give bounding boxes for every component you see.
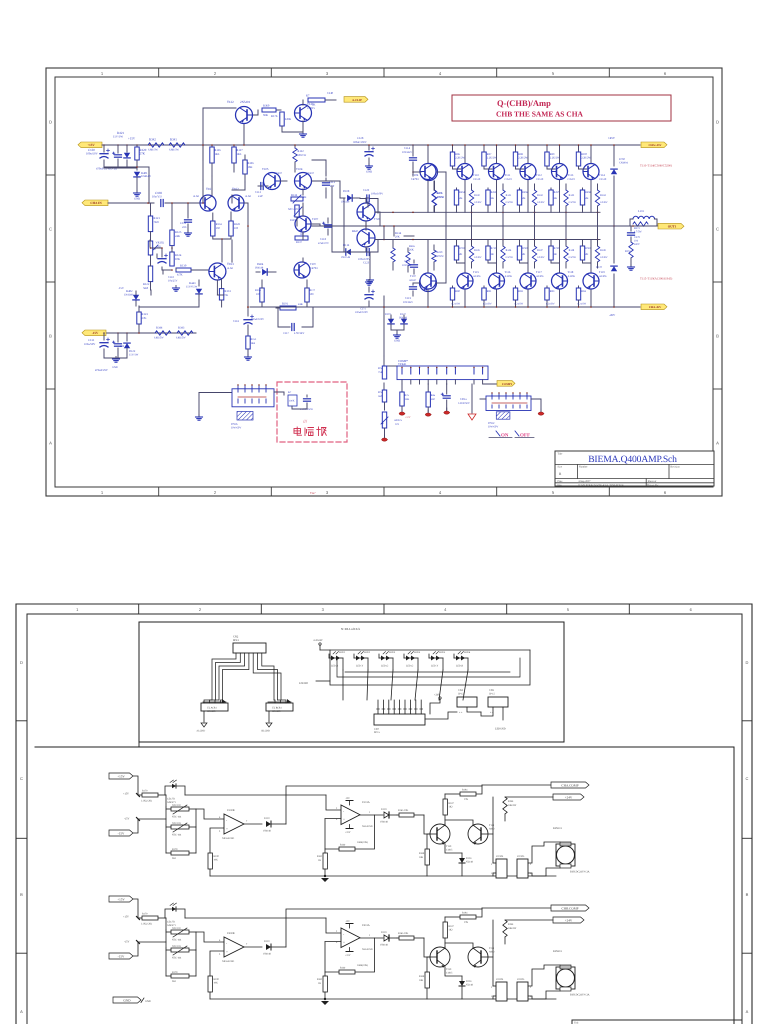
resistor R147 0.5/5W zigzag (row2) — [532, 240, 545, 269]
opto-coupler block COMP VFK41 — [397, 359, 488, 380]
svg-text:T112: T112 — [536, 173, 542, 177]
svg-text:-15V: -15V — [124, 818, 129, 821]
svg-text:1K: 1K — [318, 982, 321, 985]
resistor R145 0.5/5W zigzag (row2) — [469, 240, 482, 269]
svg-text:C3519: C3519 — [536, 178, 544, 181]
resistor R143 0.5/5W zigzag (row1) — [564, 184, 577, 212]
svg-text:ALGND: ALGND — [196, 730, 205, 733]
wire -15V parts — [103, 332, 140, 342]
svg-text:4: 4 — [444, 607, 447, 612]
svg-text:R83: R83 — [550, 290, 555, 293]
svg-text:D: D — [20, 660, 23, 665]
svg-text:C118: C118 — [320, 237, 327, 241]
svg-text:DW6: DW6 — [231, 422, 238, 426]
transistor T107 — [295, 216, 319, 232]
svg-text:27K: 27K — [464, 921, 468, 924]
ground op-amp (CHB) — [321, 998, 329, 1005]
diode D100 CN4004 — [611, 158, 629, 174]
svg-text:R191: R191 — [282, 302, 289, 306]
svg-text:N5542/SD: N5542/SD — [362, 825, 373, 828]
svg-text:0.5/5W: 0.5/5W — [600, 201, 608, 204]
svg-text:A1637: A1637 — [306, 171, 314, 175]
resistor R2a 560 — [378, 390, 387, 410]
svg-text:T231: T231 — [489, 947, 495, 950]
svg-text:6.8K/5W: 6.8K/5W — [176, 337, 186, 340]
capacitor C121 100uF/100V — [355, 287, 375, 314]
svg-text:0.5/5W: 0.5/5W — [537, 201, 545, 204]
svg-text:R255: R255 — [491, 191, 497, 194]
resistor R142 0.5/5W zigzag (row1) — [532, 184, 545, 212]
svg-text:CN104: CN104 — [496, 855, 504, 858]
svg-text:C120: C120 — [363, 188, 370, 192]
svg-text:220K: 220K — [285, 117, 291, 121]
ground triangle comp — [468, 384, 476, 420]
LED2 LED.Y — [354, 651, 371, 670]
output transistor T112 C3519 (row1) — [489, 164, 513, 182]
svg-text:A1637: A1637 — [274, 171, 282, 175]
svg-text:Number: Number — [579, 466, 588, 469]
svg-text:5: 5 — [552, 490, 555, 495]
transistor T106 C4793 — [411, 164, 438, 182]
svg-text:-15V: -15V — [92, 331, 99, 335]
connector CN2 — [233, 635, 266, 653]
svg-text:VFK41: VFK41 — [398, 362, 407, 366]
svg-text:+: + — [343, 941, 345, 945]
ground R3a red — [401, 409, 403, 412]
svg-text:26K: 26K — [409, 249, 414, 252]
resistor R141 0.5/5W zigzag (row1) — [501, 184, 514, 212]
note box CHB same as CHA — [452, 95, 671, 121]
svg-text:A1306: A1306 — [536, 275, 544, 278]
svg-text:R136: R136 — [291, 193, 298, 197]
svg-text:103/5KV: 103/5KV — [402, 264, 412, 267]
svg-text:C4793: C4793 — [411, 177, 419, 181]
wire -15V entry (CHA) — [124, 818, 166, 834]
svg-text:T110: T110 — [473, 173, 479, 177]
connector CN power — [232, 384, 274, 407]
resistor R81 0.24/5W (row2 emitter) — [482, 286, 492, 308]
port flag CHA IN — [82, 200, 108, 206]
output transistor T114 C3519 (row1) — [552, 164, 576, 182]
svg-text:100: 100 — [234, 227, 239, 230]
svg-text:GND: GND — [366, 170, 372, 174]
capacitor C130 — [86, 145, 110, 168]
svg-text:GND: GND — [112, 366, 118, 369]
svg-text:10K: 10K — [419, 856, 423, 859]
resistor R265 26K zigzag — [391, 245, 416, 270]
wire reference line (CHA) — [166, 795, 341, 810]
op-amp U101A (CHA) — [325, 797, 383, 834]
diode D108 — [340, 189, 357, 204]
svg-text:K?: K? — [288, 391, 292, 394]
driver transistor T119 B647 — [352, 229, 375, 247]
ground C128 — [368, 164, 370, 167]
ground BLGND — [262, 723, 273, 733]
wire bottom bus (CHA) — [210, 875, 556, 877]
resistor R126 1K3 — [210, 144, 221, 176]
fan board box — [35, 747, 734, 1024]
svg-text:1K2: 1K2 — [449, 806, 454, 809]
svg-text:7: 7 — [246, 943, 248, 946]
svg-text:R176: R176 — [271, 114, 278, 118]
power flag +24V (CHA) — [553, 794, 584, 800]
resistor R148 0.5/5W zigzag (row2) — [564, 240, 577, 269]
connector CN105 (CHA) — [517, 855, 532, 878]
svg-text:4.7/5W: 4.7/5W — [634, 231, 642, 234]
resistor R360 59K — [262, 104, 276, 118]
svg-text:CN4: CN4 — [458, 689, 464, 692]
svg-text:U200B: U200B — [227, 932, 235, 935]
svg-text:R141: R141 — [506, 194, 512, 197]
svg-text:C123: C123 — [363, 261, 370, 265]
power flag +15V (CHB) — [109, 896, 133, 902]
resistor R134 20K label — [393, 231, 402, 248]
LED5 LED.Y — [429, 651, 446, 670]
svg-text:R257: R257 — [554, 191, 560, 194]
svg-text:R341: R341 — [170, 138, 177, 142]
svg-text:R254: R254 — [459, 191, 465, 194]
wire led matrix — [316, 650, 530, 700]
svg-text:104: 104 — [634, 240, 639, 243]
svg-text:CHA.COMP: CHA.COMP — [561, 783, 578, 787]
svg-text:1K3: 1K3 — [215, 152, 220, 156]
svg-text:R140: R140 — [340, 844, 346, 847]
svg-text:T114: T114 — [599, 173, 605, 177]
svg-text:C: C — [20, 776, 23, 781]
wire led top bus — [320, 650, 530, 654]
svg-text:560: 560 — [378, 395, 383, 398]
svg-text:1K2: 1K2 — [449, 929, 454, 932]
svg-text:-45V: -45V — [609, 313, 616, 317]
svg-text:0.24/5W: 0.24/5W — [515, 303, 524, 306]
svg-text:R156: R156 — [255, 289, 262, 292]
svg-text:100u/50V: 100u/50V — [86, 152, 99, 156]
resistor R170 2.2K (CHB) — [141, 913, 166, 926]
wire power entry — [199, 393, 232, 417]
capacitor C116 — [233, 306, 264, 335]
resistor R130 4.7K — [176, 264, 208, 277]
svg-text:15K: 15K — [405, 398, 410, 401]
svg-text:R100: R100 — [214, 978, 220, 981]
svg-text:A-CLIP: A-CLIP — [352, 98, 362, 102]
preset VR102 — [148, 241, 164, 256]
svg-text:3: 3 — [326, 490, 329, 495]
resistor R165 10K (CHB) — [397, 932, 424, 940]
ground ALGND — [196, 723, 207, 733]
svg-text:R108: R108 — [419, 852, 425, 855]
resistor R3a 15K — [400, 384, 410, 411]
svg-text:5: 5 — [219, 830, 221, 833]
svg-text:470/W: 470/W — [437, 255, 445, 258]
diode D107 — [399, 313, 408, 330]
svg-text:C3?9: C3?9 — [634, 236, 640, 239]
svg-text:LED3: LED3 — [389, 651, 396, 654]
svg-text:2.2P: 2.2P — [258, 195, 263, 198]
svg-text:1N4148: 1N4148 — [341, 201, 350, 204]
resistor R131 7K — [219, 289, 231, 307]
svg-text:5K1: 5K1 — [172, 857, 177, 860]
wire DW2 to ground — [480, 399, 541, 411]
resistor R121 7K8 — [148, 203, 160, 232]
svg-text:R144: R144 — [600, 194, 606, 197]
connector CN7 — [374, 700, 425, 734]
svg-text:B: B — [716, 334, 719, 339]
output transistor T110 C3519 (row1) — [420, 164, 436, 180]
resistor R107 1K2 (CHB) — [443, 917, 454, 947]
svg-text:BLGND: BLGND — [262, 730, 271, 733]
svg-text:OUT1: OUT1 — [668, 225, 677, 229]
svg-text:24K: 24K — [298, 303, 303, 306]
ground op-amp (CHA) — [321, 875, 329, 882]
wire CN2 harness — [204, 653, 286, 703]
svg-text:UL BCR1: UL BCR1 — [272, 707, 282, 710]
wire output columns — [427, 144, 598, 308]
svg-text:T?20: T?20 — [374, 217, 380, 221]
svg-text:100uF/100V: 100uF/100V — [355, 311, 368, 314]
svg-text:NE5532/SD: NE5532/SD — [222, 837, 234, 840]
svg-text:T118: T118 — [568, 270, 574, 274]
svg-text:1: 1 — [369, 811, 371, 814]
output transistor T115 A1306 (row2) — [420, 273, 436, 289]
title block sheet2 corner — [572, 1020, 742, 1024]
svg-text:R190: R190 — [508, 800, 514, 803]
svg-text:10K/5W: 10K/5W — [508, 804, 517, 807]
svg-text:IN4148: IN4148 — [255, 267, 264, 270]
ground R151 — [247, 355, 249, 358]
svg-text:SH16K5: SH16K5 — [272, 710, 281, 713]
svg-text:-15V: -15V — [345, 920, 350, 923]
svg-text:103/1KV: 103/1KV — [403, 301, 413, 304]
svg-text:47uF/27V: 47uF/27V — [318, 242, 329, 245]
svg-text:R130: R130 — [180, 264, 187, 268]
ground C111 — [187, 231, 189, 234]
svg-text:R108: R108 — [419, 975, 425, 978]
svg-text:NTC103: NTC103 — [172, 822, 182, 825]
capacitor C117 4.7P/1KV — [276, 308, 313, 335]
svg-text:+: + — [226, 827, 228, 831]
svg-text:1: 1 — [76, 607, 79, 612]
connector DW2 DW-6PV — [486, 392, 531, 410]
svg-text:1K3: 1K3 — [237, 152, 242, 156]
svg-text:ADS?a: ADS?a — [394, 419, 403, 422]
svg-text:NL148: NL148 — [466, 984, 474, 987]
svg-text:R140: R140 — [474, 194, 480, 197]
ground drivers — [369, 278, 371, 281]
svg-text:R4a: R4a — [431, 394, 436, 397]
svg-text:+15V: +15V — [345, 831, 351, 834]
svg-text:6: 6 — [664, 490, 667, 495]
capacitor C114 103/5KV — [402, 144, 417, 168]
resistor R352 zigzag — [625, 242, 633, 266]
ground ADS1a — [384, 435, 386, 438]
svg-text:20K: 20K — [395, 236, 400, 239]
resistor R140 100K/22K (CHA) — [325, 815, 375, 851]
svg-text:D404: D404 — [257, 262, 264, 266]
svg-text:NL148: NL148 — [466, 861, 474, 864]
svg-text:R107: R107 — [449, 925, 455, 928]
svg-text:LED.G: LED.G — [406, 665, 413, 668]
svg-text:2.2K/2W: 2.2K/2W — [550, 157, 560, 160]
preset ADS1a — [381, 412, 403, 437]
power flag CHA-45V — [641, 304, 667, 310]
svg-text:R104: R104 — [462, 912, 468, 915]
wire feedback loop (CHB) — [286, 909, 482, 947]
svg-text:1N4148: 1N4148 — [263, 953, 272, 956]
thermistor NTC103 (CHB) — [166, 945, 196, 976]
svg-text:0.24/5W: 0.24/5W — [578, 303, 587, 306]
wire bottom bus (CHB) — [210, 998, 556, 1000]
svg-text:FAN101: FAN101 — [553, 827, 563, 830]
svg-text:2: 2 — [336, 807, 338, 810]
svg-text:1N4148: 1N4148 — [141, 174, 151, 178]
svg-text:R328: R328 — [234, 223, 241, 226]
svg-text:+24V: +24V — [434, 694, 440, 697]
transistor T108 C4793 — [294, 262, 318, 278]
svg-text:C4793: C4793 — [310, 266, 318, 270]
svg-text:2K: 2K — [459, 197, 462, 200]
svg-text:Tm?: Tm? — [310, 491, 316, 495]
wire input — [108, 202, 154, 204]
svg-text:1K: 1K — [303, 195, 306, 199]
svg-text:LDGND: LDGND — [299, 682, 308, 685]
svg-text:5K1: 5K1 — [172, 980, 177, 983]
svg-text:FAN.DC24V/0.3A: FAN.DC24V/0.3A — [570, 871, 590, 874]
svg-text:NTC-103: NTC-103 — [288, 208, 299, 211]
svg-text:2: 2 — [530, 986, 532, 989]
label power board chinese — [294, 427, 326, 436]
resistor R341 6.8K/5W — [169, 138, 185, 152]
svg-text:6: 6 — [690, 607, 693, 612]
svg-text:1N4148: 1N4148 — [263, 830, 272, 833]
switch DW6 hatched — [231, 412, 253, 430]
svg-text:R179: R179 — [172, 971, 178, 974]
svg-text:CHA+45V: CHA+45V — [648, 143, 662, 147]
resistor R176 220K — [271, 112, 291, 132]
svg-text:LED.Y: LED.Y — [356, 665, 363, 668]
svg-text:R1??: R1?? — [310, 289, 316, 292]
svg-text:LED.R: LED.R — [456, 665, 463, 668]
svg-text:LED.G: LED.G — [381, 665, 388, 668]
resistor R144 0.5/5W zigzag (row1) — [595, 184, 608, 212]
svg-text:NTC-104: NTC-104 — [172, 834, 182, 837]
op-amp U200B NE5532 (CHB) — [219, 932, 262, 963]
svg-text:Revision: Revision — [671, 466, 681, 469]
svg-text:D108: D108 — [343, 189, 350, 193]
svg-text:GND: GND — [394, 339, 400, 343]
resistor R86 2.2K/2W — [450, 144, 465, 169]
LED3 LED.G — [379, 651, 396, 670]
svg-text:Title: Title — [558, 452, 564, 455]
svg-text:B: B — [20, 892, 23, 897]
resistor R343 zigzag — [176, 326, 193, 340]
svg-text:R165 10K: R165 10K — [398, 932, 409, 935]
svg-text:A-62: A-62 — [227, 266, 234, 270]
port flag A-CLIP — [344, 97, 368, 103]
wire driver column — [312, 181, 344, 252]
resistor R304 2K (row2 base) — [580, 240, 591, 264]
svg-text:R179: R179 — [172, 848, 178, 851]
svg-text:2: 2 — [491, 986, 493, 989]
svg-text:NTC102: NTC102 — [172, 927, 182, 930]
diode D120 NL148 (CHA) — [445, 844, 474, 876]
diode D401 — [134, 171, 151, 192]
sheet1 border frame — [46, 68, 722, 496]
resistor R80 0.24/5W (row2 emitter) — [450, 286, 460, 308]
svg-text:3?2: 3?2 — [395, 423, 400, 426]
svg-text:C112: C112 — [255, 190, 262, 194]
svg-text:Sheet of: Sheet of — [648, 480, 657, 483]
svg-text:A940: A940 — [489, 828, 495, 831]
svg-text:A1306: A1306 — [505, 275, 513, 278]
svg-text:1N4148: 1N4148 — [380, 944, 389, 947]
svg-text:R342: R342 — [149, 138, 156, 142]
wire +15V entry (CHB) — [123, 899, 142, 920]
svg-text:C114: C114 — [404, 146, 411, 150]
transistor T161 — [193, 187, 216, 211]
svg-text:+45V: +45V — [608, 136, 616, 140]
svg-text:100: 100 — [216, 227, 221, 230]
svg-text:D443: D443 — [189, 281, 196, 285]
svg-text:UL ACR1: UL ACR1 — [207, 707, 217, 710]
resistor R190 10K/5W zigzag (CHA) — [503, 797, 553, 821]
svg-text:2K: 2K — [491, 253, 494, 256]
svg-text:DW2: DW2 — [488, 421, 495, 425]
LED1 LED.R — [329, 651, 346, 670]
resistor RK7 1K — [303, 91, 336, 107]
svg-text:R190: R190 — [508, 923, 514, 926]
svg-text:2.2K/2W: 2.2K/2W — [487, 157, 497, 160]
resistor R102 1K (CHA) — [317, 849, 327, 876]
svg-text:U201A: U201A — [362, 924, 370, 927]
power flag -15V — [82, 330, 106, 336]
svg-text:CN205: CN205 — [517, 978, 525, 981]
svg-text:Q-(CHB)/Amp: Q-(CHB)/Amp — [497, 98, 551, 108]
resistor R137 — [295, 233, 308, 244]
svg-text:D6?: D6? — [358, 217, 363, 220]
inductor L101 — [633, 209, 655, 219]
svg-text:10u/25V: 10u/25V — [168, 280, 178, 283]
resistor network LACR1 SH16K5 — [201, 699, 228, 722]
svg-text:T115-T119(A1306A1943): T115-T119(A1306A1943) — [640, 277, 672, 281]
svg-text:0.5/5W: 0.5/5W — [537, 256, 545, 259]
svg-text:5: 5 — [552, 71, 555, 76]
svg-text:+15V: +15V — [87, 143, 95, 147]
svg-text:+15V: +15V — [123, 793, 129, 796]
svg-text:D: D — [716, 120, 719, 125]
diode D106 — [385, 313, 394, 330]
svg-text:0.24/5W: 0.24/5W — [452, 303, 461, 306]
svg-text:LED5: LED5 — [439, 651, 446, 654]
svg-text:100: 100 — [256, 293, 261, 296]
diode D404 — [255, 262, 276, 275]
svg-text:CN2: CN2 — [233, 635, 239, 638]
svg-text:U101A: U101A — [362, 801, 370, 804]
svg-text:1: 1 — [101, 490, 104, 495]
ground below D401 — [136, 191, 138, 194]
wire interconnects — [139, 160, 446, 308]
svg-text:0.5/5W: 0.5/5W — [569, 256, 577, 259]
svg-text:1N4148: 1N4148 — [124, 294, 133, 297]
resistor R108 10K (CHA) — [419, 834, 430, 876]
svg-text:ON: ON — [501, 433, 509, 439]
svg-text:15V/0.5W: 15V/0.5W — [186, 286, 198, 289]
ground DW2 red — [540, 409, 542, 412]
resistor R254 2K (row1 emitter) — [454, 188, 465, 212]
svg-text:A: A — [49, 441, 52, 446]
power flag +24V (CHB) — [553, 917, 584, 923]
resistor R127 1K3 — [232, 144, 243, 172]
svg-text:59K: 59K — [263, 113, 268, 117]
